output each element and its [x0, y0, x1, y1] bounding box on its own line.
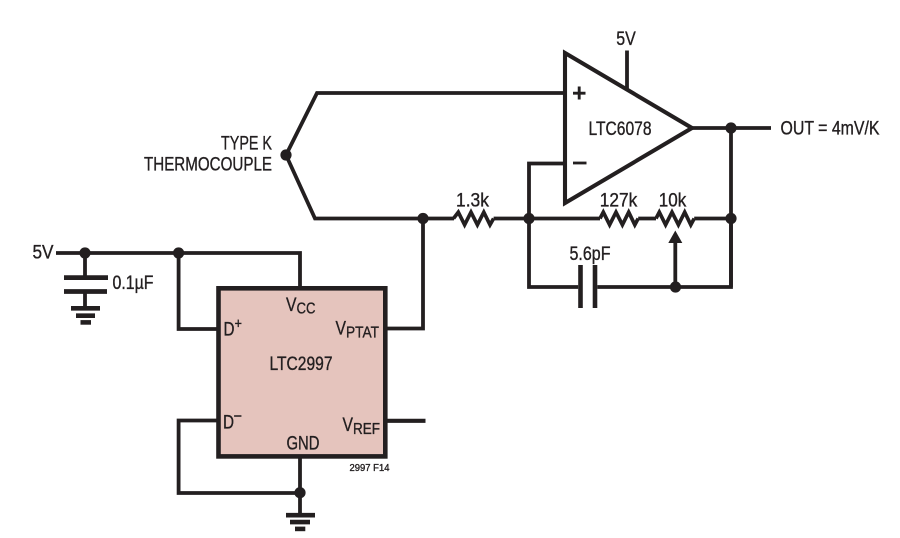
wire output vertical feedback [729, 128, 733, 287]
svg-text:THERMOCOUPLE: THERMOCOUPLE [144, 155, 272, 176]
pin label VREF [343, 415, 381, 438]
wire potentiometer wiper stem [673, 242, 677, 287]
wire VPTAT pin to rail [387, 219, 423, 329]
pin label D+ [224, 316, 243, 341]
IC U2 LTC2997 [219, 288, 386, 456]
pin label VPTAT [336, 319, 380, 342]
op-amp minus sign [573, 162, 587, 165]
wire D- pin [179, 421, 300, 494]
node feedback right junction [725, 213, 736, 224]
svg-text:GND: GND [287, 434, 320, 455]
svg-text:PTAT: PTAT [346, 325, 379, 342]
svg-text:V: V [343, 415, 354, 436]
svg-text:+: + [235, 316, 243, 333]
svg-text:1.3k: 1.3k [456, 191, 489, 212]
pin label D- [223, 408, 242, 434]
node thermocouple junction [280, 149, 291, 160]
wire D+ branch vertical [179, 253, 218, 329]
svg-text:D: D [223, 413, 234, 434]
wiper arrow head [668, 231, 682, 244]
svg-text:D: D [224, 320, 235, 341]
resistor 1.3k [454, 212, 494, 225]
wire GND pin stem [298, 456, 302, 513]
wire capacitor stem top [83, 253, 87, 276]
op-amp plus sign [573, 87, 586, 100]
resistor 127k [600, 212, 638, 225]
svg-text:LTC6078: LTC6078 [589, 119, 652, 140]
node VPTAT junction [417, 213, 428, 224]
node ground junction [294, 487, 305, 498]
node wiper bottom junction [670, 281, 681, 292]
svg-text:V: V [336, 319, 347, 340]
svg-text:127k: 127k [600, 191, 638, 212]
wire op-amp 5V supply stub [625, 51, 629, 90]
pin label VCC [286, 295, 316, 318]
svg-text:5V: 5V [616, 29, 636, 50]
wire rail right of 10k [694, 217, 731, 221]
node 5V/0.1uF junction [79, 247, 90, 258]
wire op-amp minus input [529, 164, 565, 219]
svg-text:TYPE K: TYPE K [221, 134, 272, 155]
capacitor 5.6pF [581, 265, 596, 308]
node output junction [725, 122, 736, 133]
wire feedback bottom right [597, 219, 731, 288]
svg-text:OUT = 4mV/K: OUT = 4mV/K [781, 119, 880, 140]
svg-text:5V: 5V [33, 243, 54, 264]
op-amp U1 LTC6078 [565, 53, 692, 203]
svg-text:REF: REF [353, 421, 380, 438]
svg-text:0.1µF: 0.1µF [113, 273, 154, 294]
wire 5V rail [56, 253, 300, 290]
wire rail between 1.3k and 127k [494, 217, 600, 221]
svg-text:5.6pF: 5.6pF [570, 244, 611, 265]
ground below LTC2997 [286, 515, 315, 529]
svg-text:V: V [286, 295, 297, 316]
svg-text:LTC2997: LTC2997 [270, 354, 333, 375]
node 5V/D+ branch junction [173, 247, 184, 258]
potentiometer 10k [656, 212, 694, 225]
capacitor 0.1uF [64, 278, 108, 292]
node inverting summing junction [523, 213, 534, 224]
wire thermocouple upper lead to op-amp + input [286, 93, 565, 155]
svg-text:10k: 10k [659, 191, 687, 212]
wire rail between 127k and 10k [638, 217, 656, 221]
wire thermocouple lower lead to bottom rail [286, 155, 454, 219]
wire feedback bottom left [529, 219, 578, 288]
wire VREF pin stub [386, 419, 426, 423]
svg-text:2997 F14: 2997 F14 [350, 463, 390, 474]
wire capacitor stem bottom [83, 293, 87, 307]
svg-text:−: − [234, 408, 243, 425]
svg-text:CC: CC [297, 301, 316, 318]
ground below 0.1uF [71, 308, 100, 322]
wire output [692, 126, 771, 130]
